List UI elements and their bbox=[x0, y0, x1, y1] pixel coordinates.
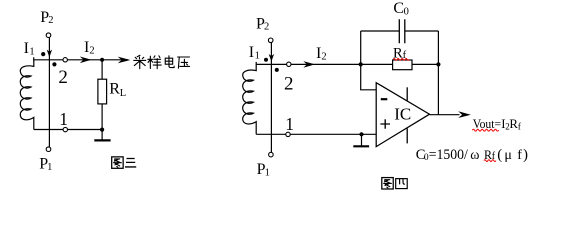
polarity dot secondary bbox=[52, 62, 56, 66]
terminal P1 circle bbox=[46, 147, 51, 152]
caption 图三 bbox=[112, 157, 137, 168]
svg-text:0: 0 bbox=[404, 7, 409, 18]
op-amp plus sign bbox=[380, 119, 390, 128]
svg-text:1: 1 bbox=[59, 109, 68, 129]
svg-text:2: 2 bbox=[48, 15, 53, 26]
svg-text:I: I bbox=[249, 44, 254, 61]
current arrow I2 (right) bbox=[303, 61, 315, 68]
current arrow I1 on primary bbox=[47, 50, 52, 58]
node 1 terminal circle bbox=[63, 127, 67, 131]
capacitor C0 plates bbox=[399, 19, 405, 43]
junction dot ground tap bbox=[359, 132, 363, 136]
resistor Rf body bbox=[393, 60, 412, 70]
svg-text:2: 2 bbox=[264, 22, 269, 33]
svg-text:f: f bbox=[517, 148, 522, 163]
op-amp power pin bottom bbox=[406, 128, 408, 143]
op-amp IC triangle bbox=[376, 83, 429, 147]
transformer secondary winding (coil) bbox=[20, 60, 33, 130]
svg-text:1: 1 bbox=[29, 46, 34, 57]
svg-text:I: I bbox=[24, 40, 29, 57]
junction dot RL bottom bbox=[100, 128, 104, 132]
junction dot feedback left bbox=[359, 62, 363, 66]
output arrow to sampling voltage bbox=[118, 57, 131, 64]
svg-text:1: 1 bbox=[285, 114, 294, 134]
svg-text:C: C bbox=[393, 0, 404, 17]
polarity dot primary bbox=[41, 52, 45, 56]
op-amp power pin top bbox=[406, 87, 408, 100]
resistor Rf wires bbox=[361, 63, 439, 65]
wire: secondary bottom (right) to op-amp + input bbox=[256, 133, 376, 135]
output arrow Vout bbox=[458, 111, 471, 118]
svg-text:=1500/: =1500/ bbox=[429, 147, 469, 163]
svg-text:1: 1 bbox=[265, 168, 270, 179]
node 2 terminal circle bbox=[63, 58, 67, 62]
wire: secondary top bbox=[34, 57, 129, 60]
wire: primary vertical (right) bbox=[270, 43, 272, 153]
transformer secondary winding (right coil) bbox=[243, 64, 256, 134]
wire: op-amp output bbox=[430, 114, 460, 116]
red squiggle under Rf label bbox=[393, 59, 409, 61]
node 2 terminal circle (right) bbox=[287, 62, 291, 66]
junction dot RL top bbox=[100, 58, 104, 62]
svg-text:L: L bbox=[120, 88, 126, 99]
wire: primary vertical P2 to P1 bbox=[48, 38, 50, 147]
terminal P2 circle (right) bbox=[268, 38, 273, 43]
wire: feedback right vertical bbox=[437, 31, 439, 115]
svg-text:2: 2 bbox=[58, 67, 68, 88]
ground symbol bbox=[361, 134, 363, 146]
svg-text:2: 2 bbox=[321, 51, 326, 62]
terminal P2 circle bbox=[46, 33, 51, 38]
capacitor C0 wires bbox=[361, 30, 439, 32]
terminal P1 circle (right) bbox=[269, 152, 274, 157]
svg-text:1: 1 bbox=[255, 50, 260, 61]
resistor RL leads bbox=[101, 60, 103, 79]
svg-text:2: 2 bbox=[89, 46, 94, 57]
wire: secondary bottom bbox=[34, 129, 102, 131]
red squiggle under Rf in formula bbox=[484, 160, 496, 162]
svg-text:R: R bbox=[109, 81, 120, 98]
op-amp minus sign bbox=[381, 98, 388, 100]
resistor RL body bbox=[98, 79, 107, 104]
wire: feedback left vertical and jog to inverting input bbox=[361, 31, 377, 90]
current arrow I1 (right) bbox=[269, 54, 274, 62]
ground bar below RL bbox=[94, 139, 110, 141]
svg-text:1: 1 bbox=[47, 162, 52, 173]
junction dot feedback right bbox=[436, 62, 440, 66]
polarity dot primary (right) bbox=[264, 58, 268, 62]
svg-text:2: 2 bbox=[284, 73, 294, 94]
red squiggle under Vout bbox=[472, 129, 498, 131]
svg-text:IC: IC bbox=[394, 104, 411, 123]
svg-text:): ) bbox=[523, 147, 528, 163]
polarity dot secondary (right) bbox=[275, 68, 279, 72]
caption 图四 bbox=[382, 178, 407, 189]
svg-text:ω: ω bbox=[470, 148, 479, 163]
current arrow I2 bbox=[80, 57, 92, 64]
svg-text:(: ( bbox=[497, 147, 502, 163]
svg-text:μ: μ bbox=[504, 148, 512, 163]
text 采样电压 (sampling voltage) bbox=[134, 55, 190, 68]
node 1 terminal circle (right) bbox=[286, 132, 290, 136]
wire: secondary top (right) bbox=[256, 62, 361, 65]
